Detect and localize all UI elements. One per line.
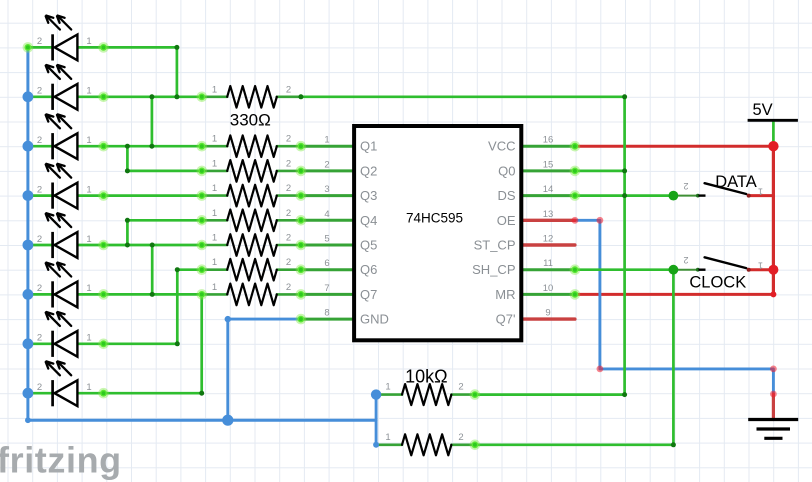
LED D1 — [37, 16, 92, 61]
wire 10k B pin2 to SH_CP net — [475, 443, 674, 446]
wire DS pin14 to DATA switch — [575, 194, 674, 197]
svg-text:2: 2 — [458, 382, 463, 393]
wire 5V vertical rail (red) — [772, 146, 775, 294]
svg-text:4: 4 — [324, 209, 329, 220]
IC left pin names — [360, 139, 389, 327]
svg-text:11: 11 — [543, 258, 553, 269]
resistor R4 330&#937; — [202, 183, 301, 206]
svg-text:1: 1 — [212, 282, 217, 293]
IC left pin numbers 1-8 — [324, 135, 329, 319]
svg-text:2: 2 — [683, 255, 688, 265]
svg-text:1: 1 — [86, 283, 91, 294]
IC right pin numbers 16-9 — [543, 135, 554, 319]
svg-text:Q4: Q4 — [360, 213, 377, 228]
resistor R8 330&#937; — [202, 282, 301, 305]
wire SH_CP pin11 to CLOCK switch — [575, 268, 674, 271]
wire LED6 row to R8 pin1 — [28, 293, 202, 296]
svg-text:2: 2 — [286, 208, 291, 219]
svg-text:1: 1 — [758, 187, 763, 197]
pushbutton S1 DATA — [673, 181, 773, 198]
wire VCC pin16 to 5V rail (red) — [575, 145, 774, 148]
wire MR pin10 to 5V rail (red) — [575, 293, 774, 296]
svg-text:2: 2 — [286, 233, 291, 244]
resistor R6 330&#937; — [202, 233, 301, 256]
74HC595 right pin stubs red 13,12,9 (OE, ST_CP, Q7') — [521, 220, 575, 319]
svg-text:12: 12 — [543, 234, 554, 245]
terminal glow points — [23, 42, 581, 450]
svg-text:2: 2 — [37, 382, 42, 393]
svg-text:2: 2 — [37, 184, 42, 195]
svg-text:330Ω: 330Ω — [230, 110, 271, 129]
wire Q0 pin15 stub wire — [575, 170, 625, 173]
resistor R10 10k&#937; — [376, 432, 475, 456]
LED D5 — [37, 213, 92, 258]
svg-text:2: 2 — [683, 181, 688, 191]
resistor R9 10k&#937; — [376, 382, 475, 406]
svg-text:1: 1 — [212, 158, 217, 169]
resistor R3 330&#937; — [202, 158, 301, 181]
svg-text:2: 2 — [458, 432, 463, 443]
LED D2 — [37, 65, 92, 110]
svg-text:6: 6 — [324, 258, 329, 269]
resistor R2 330&#937; — [202, 134, 301, 157]
svg-text:2: 2 — [286, 282, 291, 293]
svg-text:8: 8 — [324, 308, 329, 319]
svg-text:1: 1 — [86, 333, 91, 344]
svg-text:1: 1 — [212, 134, 217, 145]
svg-text:2: 2 — [324, 159, 329, 170]
svg-text:74HC595: 74HC595 — [406, 211, 463, 226]
svg-text:1: 1 — [86, 234, 91, 245]
svg-text:14: 14 — [543, 184, 554, 195]
svg-text:5V: 5V — [753, 101, 773, 119]
svg-text:GND: GND — [360, 312, 389, 327]
svg-text:Q1: Q1 — [360, 139, 377, 154]
svg-text:10kΩ: 10kΩ — [405, 367, 447, 387]
big green switch terminals — [669, 191, 679, 275]
wire branch row2 down to row3 — [151, 97, 154, 146]
wire branch LED5 up to Q4 row — [127, 219, 201, 222]
svg-text:2: 2 — [286, 183, 291, 194]
svg-text:Q6: Q6 — [360, 262, 377, 277]
svg-text:9: 9 — [545, 308, 550, 319]
svg-text:2: 2 — [37, 333, 42, 344]
LED D7 — [37, 312, 92, 357]
svg-text:1: 1 — [86, 184, 91, 195]
svg-text:1: 1 — [212, 183, 217, 194]
IC right pin names — [472, 139, 516, 327]
svg-text:1: 1 — [758, 261, 763, 271]
svg-text:15: 15 — [543, 159, 554, 170]
resistor R1 330&#937; — [202, 84, 301, 107]
wire GND pin8 to bottom rail (blue) — [228, 319, 301, 420]
wire LED1 anode to R1 — [77, 47, 176, 96]
svg-text:MR: MR — [495, 287, 515, 302]
LED D6 — [37, 263, 92, 308]
LED D4 — [37, 164, 92, 209]
svg-text:2: 2 — [286, 158, 291, 169]
IC U1 74HC595 body — [354, 126, 521, 340]
red junction dots — [768, 141, 778, 297]
svg-text:2: 2 — [37, 234, 42, 245]
svg-text:5: 5 — [324, 234, 329, 245]
svg-text:VCC: VCC — [488, 139, 515, 154]
svg-text:2: 2 — [37, 86, 42, 97]
wire LED cathode bus (blue) — [28, 47, 376, 420]
svg-text:1: 1 — [324, 135, 329, 146]
svg-text:DATA: DATA — [715, 173, 757, 191]
pushbutton S2 CLOCK — [673, 255, 773, 272]
svg-text:13: 13 — [543, 209, 554, 220]
svg-text:1: 1 — [385, 382, 390, 393]
green bendpoints and junctions — [125, 45, 676, 447]
svg-text:DS: DS — [497, 188, 515, 203]
svg-text:Q3: Q3 — [360, 188, 377, 203]
ground symbol — [748, 394, 798, 438]
blue junction dots on cathode bus — [23, 91, 382, 447]
svg-text:Q7': Q7' — [496, 312, 516, 327]
svg-text:2: 2 — [37, 283, 42, 294]
svg-text:1: 1 — [86, 86, 91, 97]
wire LED2 row to R1 pin1 — [28, 95, 202, 98]
wire R1 pin2 to Q0 net — [301, 95, 625, 98]
translucent red endpoints on OE-ground wire — [572, 217, 777, 397]
wire CLOCK pulldown vertical — [672, 270, 675, 445]
LED D8 — [37, 361, 92, 406]
wire LED row1 cathode stub — [28, 46, 53, 49]
LED D3 — [37, 114, 92, 159]
wire branch row3 down to Q2 row — [127, 146, 201, 171]
svg-text:2: 2 — [286, 134, 291, 145]
svg-text:16: 16 — [543, 135, 554, 146]
wire LED5 row to R6 pin1 — [28, 244, 202, 247]
resistor R5 330&#937; — [202, 208, 301, 231]
resistor R7 330&#937; — [202, 257, 301, 280]
svg-text:2: 2 — [37, 135, 42, 146]
wire LED7 to Q6 row — [28, 270, 202, 344]
svg-text:2: 2 — [286, 84, 291, 95]
wire 5V supply stub — [772, 121, 775, 146]
svg-text:Q5: Q5 — [360, 238, 377, 253]
svg-text:7: 7 — [324, 283, 329, 294]
svg-text:1: 1 — [212, 233, 217, 244]
svg-text:fritzing: fritzing — [0, 440, 122, 481]
wire LED3 row to R2 pin1 — [28, 145, 202, 148]
wire bottom rail to 10k resistors (blue) — [375, 395, 378, 445]
svg-text:CLOCK: CLOCK — [689, 274, 746, 292]
74HC595 right pin stubs green 16,15,14,11,10 — [521, 146, 575, 294]
svg-text:1: 1 — [86, 135, 91, 146]
svg-text:1: 1 — [385, 432, 390, 443]
wire LED4 row to R4 pin1 — [28, 194, 202, 197]
wire OE to ground (blue) — [575, 220, 774, 394]
wire branch LED6 up to Q5 row — [151, 245, 154, 294]
svg-text:OE: OE — [497, 213, 516, 228]
svg-text:3: 3 — [324, 184, 329, 195]
74HC595 left pin stubs 1-8 — [301, 146, 354, 319]
svg-text:ST_CP: ST_CP — [474, 238, 516, 253]
svg-text:1: 1 — [86, 36, 91, 47]
svg-text:1: 1 — [212, 84, 217, 95]
svg-text:SH_CP: SH_CP — [472, 262, 515, 277]
svg-text:10: 10 — [543, 283, 554, 294]
power supply 5V symbol — [748, 101, 798, 120]
wire LED8 to R8 pin1 — [28, 294, 202, 393]
svg-text:Q7: Q7 — [360, 287, 377, 302]
svg-text:1: 1 — [212, 208, 217, 219]
svg-text:2: 2 — [286, 257, 291, 268]
wire 10k A pin2 to DS net — [475, 393, 625, 396]
wire main vertical Q0/DS pulldown net — [623, 97, 626, 395]
svg-text:1: 1 — [86, 382, 91, 393]
svg-text:2: 2 — [37, 36, 42, 47]
svg-text:Q0: Q0 — [498, 163, 515, 178]
svg-text:1: 1 — [212, 257, 217, 268]
svg-text:Q2: Q2 — [360, 163, 377, 178]
